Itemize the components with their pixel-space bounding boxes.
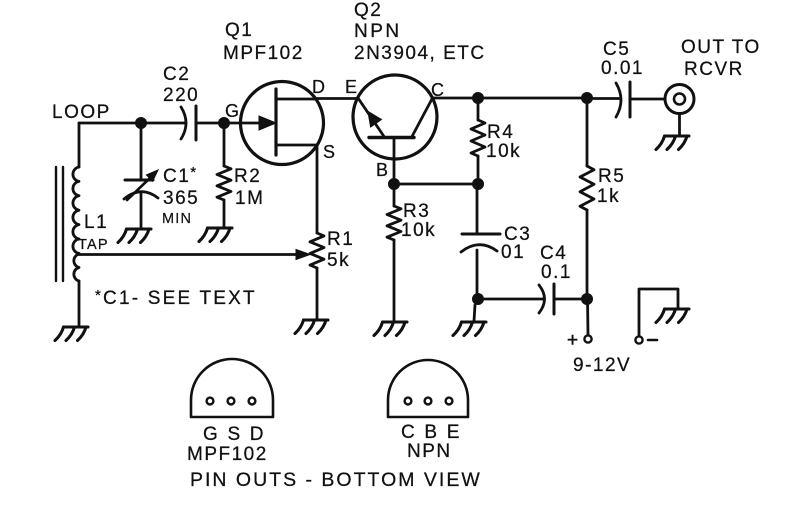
ground under R2 xyxy=(199,228,232,242)
wire LOOP input rail left segment xyxy=(79,122,186,125)
svg-text:0.1: 0.1 xyxy=(541,262,572,283)
svg-text:G S D: G S D xyxy=(203,424,266,445)
pin hole B of NPN xyxy=(425,398,432,405)
node junction dot C3/C4 xyxy=(472,293,484,305)
transistor Q1 MPF102 JFET xyxy=(241,82,324,165)
svg-text:L1: L1 xyxy=(84,212,108,233)
terminal minus 9-12V xyxy=(635,336,642,343)
wire supply node to plus terminal xyxy=(586,299,589,334)
transistor Q2 NPN 2N3904 xyxy=(353,75,437,159)
wire R5 top lead xyxy=(586,98,589,166)
svg-text:365: 365 xyxy=(163,188,199,209)
wire C3 bottom lead xyxy=(476,250,479,299)
node junction dot R4/C3 xyxy=(472,178,484,190)
wire gate node to R2 xyxy=(223,123,226,166)
wire Q1 source lead down xyxy=(316,145,319,233)
wire C3 node to C4 xyxy=(478,298,543,301)
wire R2 to ground xyxy=(223,200,226,227)
inductor L1 core lines xyxy=(56,167,63,281)
svg-text:NPN: NPN xyxy=(407,441,452,462)
resistor R4 10k xyxy=(471,120,485,156)
resistor R1 5k potentiometer xyxy=(310,233,324,268)
resistor R3 10k xyxy=(387,206,401,240)
ground under C1 xyxy=(118,229,151,243)
svg-text:01: 01 xyxy=(501,242,525,263)
wire Q2 collector to R4 node xyxy=(433,97,479,100)
wire R1 to ground xyxy=(316,268,319,319)
wire C2 to gate-node segment xyxy=(196,122,224,125)
svg-text:RCVR: RCVR xyxy=(684,59,744,80)
pin hole E of NPN xyxy=(446,398,453,405)
svg-text:Q2: Q2 xyxy=(354,0,382,21)
resistor R5 1k xyxy=(580,166,594,210)
wire C3 top lead xyxy=(476,184,479,233)
wire R4 bottom lead xyxy=(477,156,480,184)
wire C1 bottom lead xyxy=(140,194,143,228)
wire C5 to output jack xyxy=(630,98,665,101)
wire TAP to R1 wiper arrow xyxy=(79,253,300,256)
svg-text:LOOP: LOOP xyxy=(52,102,111,123)
node junction dot at C1 tap xyxy=(135,117,147,129)
node junction dot Q2 base xyxy=(388,178,400,190)
svg-text:MPF102: MPF102 xyxy=(223,43,304,64)
wire jack to ground xyxy=(678,114,681,136)
wire C3 node to ground xyxy=(474,305,475,321)
capacitor C4 0.1 xyxy=(539,285,545,313)
svg-text:10k: 10k xyxy=(401,220,436,241)
svg-text:C5: C5 xyxy=(603,39,630,60)
wire base node to R3 xyxy=(393,184,396,206)
package outline MPF102 bottom view xyxy=(191,359,273,417)
label minus sign xyxy=(648,339,657,342)
svg-text:220: 220 xyxy=(163,85,199,106)
wire R3 to ground xyxy=(393,240,396,321)
svg-text:NPN: NPN xyxy=(354,21,402,42)
pin hole D of MPF102 xyxy=(249,398,256,405)
capacitor C3 .01 xyxy=(462,233,500,236)
node junction dot R5/C5 xyxy=(581,92,593,104)
ground under L1 xyxy=(55,327,88,341)
wire R4 node to R5 node xyxy=(478,97,587,100)
svg-text:S: S xyxy=(323,142,337,162)
pin hole S of MPF102 xyxy=(228,398,235,405)
svg-text:5k: 5k xyxy=(327,250,350,271)
svg-text:1M: 1M xyxy=(235,188,264,209)
wire gate-node into Q1 gate xyxy=(224,122,272,125)
svg-text:R1: R1 xyxy=(327,229,354,250)
wire base node to R4/C3 node xyxy=(394,183,478,186)
svg-text:C2: C2 xyxy=(163,64,190,85)
svg-text:*C1- SEE TEXT: *C1- SEE TEXT xyxy=(95,287,257,309)
terminal plus 9-12V xyxy=(584,335,591,342)
svg-text:G: G xyxy=(225,101,241,121)
svg-text:MPF102: MPF102 xyxy=(187,444,268,465)
node junction dot collector/R4 xyxy=(472,92,484,104)
inductor L1 lower winding xyxy=(74,254,79,281)
ground under output jack xyxy=(656,136,689,150)
wire Q1 drain to Q2 emitter xyxy=(317,97,357,100)
svg-text:2N3904, ETC: 2N3904, ETC xyxy=(354,43,486,64)
svg-text:MIN: MIN xyxy=(162,211,192,227)
wire L1 bottom lead xyxy=(78,281,81,327)
capacitor C2 220 xyxy=(181,107,186,139)
svg-text:+: + xyxy=(567,330,578,351)
connector output jack OUT TO RCVR xyxy=(665,85,694,114)
svg-text:R2: R2 xyxy=(234,166,261,187)
capacitor C5 0.01 xyxy=(616,83,621,117)
ground under C3 xyxy=(453,322,486,336)
wire C4 to R5 node xyxy=(554,298,587,301)
svg-text:0.01: 0.01 xyxy=(601,58,644,79)
node junction dot at Q1 gate / R2 xyxy=(218,117,230,129)
svg-text:R4: R4 xyxy=(487,122,514,143)
wire minus terminal hook to ground xyxy=(639,289,678,335)
pin hole C of NPN xyxy=(405,398,412,405)
ground at minus hook xyxy=(656,309,689,323)
svg-text:OUT TO: OUT TO xyxy=(681,37,761,58)
wire R5 bottom lead xyxy=(586,210,589,299)
capacitor C1 variable 365pF xyxy=(125,179,153,182)
node junction dot R5/C4/supply xyxy=(581,293,593,305)
svg-text:D: D xyxy=(312,77,327,97)
inductor L1 upper winding xyxy=(73,167,79,253)
svg-text:C B E: C B E xyxy=(401,422,462,443)
svg-text:C4: C4 xyxy=(540,243,567,264)
svg-text:TAP: TAP xyxy=(78,237,109,253)
pin hole G of MPF102 xyxy=(207,398,214,405)
svg-text:R5: R5 xyxy=(598,166,625,187)
svg-text:PIN OUTS - BOTTOM VIEW: PIN OUTS - BOTTOM VIEW xyxy=(190,469,482,491)
wire junction to C1 top xyxy=(140,123,143,179)
wire R5 node to C5 xyxy=(587,97,620,100)
svg-text:1k: 1k xyxy=(597,186,620,207)
ground under R1 xyxy=(295,320,328,334)
ground under R3 xyxy=(374,322,407,336)
wire R4 top lead xyxy=(477,98,480,120)
svg-text:E: E xyxy=(345,77,359,97)
svg-text:Q1: Q1 xyxy=(225,20,253,41)
package outline NPN bottom view xyxy=(388,360,468,417)
svg-text:C: C xyxy=(431,80,446,100)
svg-text:R3: R3 xyxy=(403,201,430,222)
svg-text:10k: 10k xyxy=(486,141,521,162)
wire LOOP vertical lead xyxy=(78,123,81,167)
svg-text:9-12V: 9-12V xyxy=(573,355,631,376)
svg-text:B: B xyxy=(376,160,390,180)
resistor R2 1M xyxy=(217,166,231,200)
